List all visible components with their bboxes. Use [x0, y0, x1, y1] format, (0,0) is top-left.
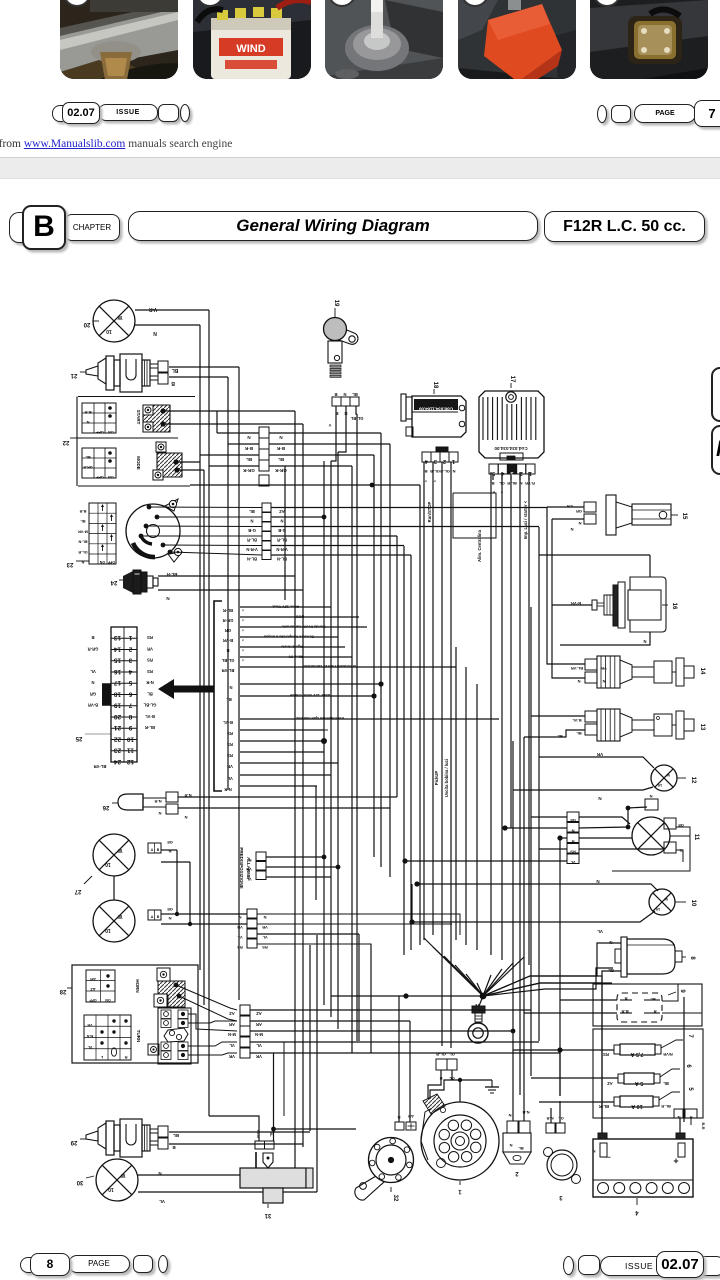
right edge boxes: [711, 367, 720, 422]
wires horn: [398, 996, 400, 1122]
svg-text:10: 10: [127, 735, 135, 742]
svg-text:N-R: N-R: [146, 680, 153, 685]
alternator stator 23: [66, 499, 182, 567]
connector A-B lamp27b: [148, 907, 173, 921]
svg-text:BL: BL: [650, 997, 656, 1002]
svg-text:11: 11: [693, 834, 699, 841]
svg-text:2: 2: [443, 458, 446, 464]
svg-text:AZ: AZ: [279, 509, 285, 514]
svg-text:3: 3: [559, 1194, 563, 1200]
wire B key: [331, 406, 336, 461]
svg-text:RS: RS: [227, 731, 233, 736]
svg-text:N: N: [263, 915, 266, 920]
wire GL-BL cluster: [240, 656, 352, 658]
svg-text:RS: RS: [147, 658, 153, 663]
wire VL lamp30: [138, 1191, 317, 1193]
wire VR socket15: [547, 506, 584, 508]
svg-text:10: 10: [690, 900, 696, 907]
wire B-R relay9: [524, 1012, 617, 1014]
wire BL-R item24: [158, 575, 295, 577]
svg-text:10: 10: [105, 927, 111, 933]
wire feeder coil16 top: [539, 554, 650, 556]
svg-text:VL: VL: [90, 669, 96, 674]
wire B cluster: [240, 646, 345, 648]
gray band: [0, 157, 720, 179]
svg-text:BL-R: BL-R: [277, 538, 287, 543]
wires GL connector: [428, 1070, 441, 1099]
svg-text:A: A: [151, 848, 154, 852]
lamp 11 bulb: [632, 817, 670, 855]
svg-text:GL-R: GL-R: [78, 550, 88, 554]
wire VL strip3: [250, 1041, 539, 1043]
svg-text:N: N: [168, 916, 171, 921]
ignition key 19: [324, 300, 358, 378]
wire ground: [460, 1080, 492, 1102]
predisposizione allarme label: [239, 847, 251, 888]
svg-text:R: R: [653, 1009, 656, 1014]
wire bus vertical lines: [177, 310, 684, 1192]
svg-text:HORN: HORN: [135, 979, 140, 992]
battery terminal connector: [674, 1109, 706, 1130]
wire START out2: [163, 423, 303, 425]
svg-text:Sensore temperatura acqua: Sensore temperatura acqua: [263, 635, 314, 639]
top pills: [52, 105, 63, 122]
wire N item24: [158, 589, 303, 591]
wire B-VR cluster: [240, 636, 338, 638]
svg-text:R: R: [124, 1055, 127, 1060]
svg-text:BL: BL: [85, 455, 91, 460]
svg-text:B-VL: B-VL: [145, 714, 155, 719]
svg-text:12: 12: [127, 758, 135, 765]
svg-text:13: 13: [699, 724, 705, 731]
svg-text:BL-R: BL-R: [166, 572, 177, 577]
wire to starter relay: [483, 983, 612, 996]
wires item29: [169, 1131, 310, 1133]
connector 31 pins: [255, 1141, 265, 1149]
wires turn connector to strip3: [188, 1014, 237, 1031]
svg-text:>: >: [242, 638, 244, 642]
svg-text:18: 18: [114, 690, 122, 697]
svg-text:32: 32: [392, 1195, 398, 1202]
starter relay 9 dashed: [617, 989, 685, 1022]
svg-text:R: R: [571, 839, 574, 844]
svg-text:15: 15: [114, 657, 122, 664]
alarm connector pins: [246, 852, 266, 882]
svg-text:N: N: [248, 858, 251, 863]
lamp 12 tail: [651, 765, 677, 791]
svg-text:BL-R: BL-R: [507, 481, 517, 486]
svg-text:N-R: N-R: [546, 1116, 553, 1121]
pin B item21: [158, 373, 168, 384]
svg-text:B: B: [172, 1145, 176, 1150]
svg-text:VL: VL: [237, 935, 243, 940]
svg-text:21: 21: [70, 372, 77, 378]
svg-text:W: W: [117, 314, 122, 320]
headlamp connector strip: [0, 0, 1, 1]
svg-text:N: N: [229, 685, 232, 690]
oil sensor 31: [240, 1152, 313, 1218]
spark plug cable 14: [571, 656, 705, 688]
turn lamp front right 27b: [93, 900, 135, 942]
svg-text:B-R: B-R: [84, 410, 91, 415]
pins item29: [158, 1126, 168, 1137]
mount plate 3: [544, 1148, 581, 1201]
svg-text:17: 17: [114, 679, 122, 686]
regulator connector 5-pin: [489, 464, 535, 495]
svg-text:BL-VR: BL-VR: [94, 764, 107, 769]
wires lamp27a: [161, 849, 177, 851]
svg-text:ON: ON: [99, 560, 105, 564]
wire VL lamp10: [412, 911, 655, 922]
svg-text:6: 6: [685, 1064, 691, 1068]
photo strip: [60, 0, 178, 79]
svg-text:24: 24: [114, 758, 122, 765]
svg-text:GL-BL: GL-BL: [221, 658, 234, 663]
ignition coil 16: [592, 577, 677, 632]
svg-text:BL: BL: [576, 731, 582, 736]
svg-text:19: 19: [333, 300, 339, 307]
wire BL-VR riserva carburante: [240, 666, 456, 668]
wire to battery positive: [679, 1118, 681, 1133]
svg-text:N: N: [596, 879, 599, 884]
svg-text:Alim. Centralina: Alim. Centralina: [477, 529, 482, 562]
svg-text:>: >: [242, 628, 244, 632]
horn 32: [355, 1138, 414, 1202]
wires 23 to strip2: [147, 505, 152, 510]
svg-text:GL-BL: GL-BL: [350, 416, 363, 421]
svg-text:VR: VR: [227, 764, 233, 769]
svg-text:N: N: [247, 435, 250, 440]
wire BL item21: [169, 366, 239, 368]
wire V-R lamp20: [135, 309, 209, 311]
junction: [403, 993, 408, 998]
svg-text:NODI: NODI: [295, 615, 305, 619]
svg-text:L: L: [100, 1055, 103, 1060]
svg-text:AR: AR: [229, 1022, 235, 1027]
wire MODE out1: [176, 461, 200, 463]
svg-text:GR-R: GR-R: [83, 465, 93, 469]
wire M-N 31: [209, 1116, 259, 1141]
wire BL-R strip2: [271, 535, 397, 537]
svg-text:B: B: [171, 380, 175, 386]
svg-text:N: N: [519, 481, 522, 486]
svg-text:BL: BL: [246, 457, 252, 462]
wire N lamp12: [513, 787, 653, 790]
svg-text:VL: VL: [262, 935, 268, 940]
svg-text:4: 4: [128, 668, 132, 675]
svg-text:10: 10: [105, 861, 111, 867]
svg-text:31: 31: [264, 1212, 271, 1218]
svg-text:BL: BL: [249, 509, 255, 514]
ground chassis: [485, 1080, 499, 1093]
fuse 7.5A: [603, 1034, 693, 1057]
svg-text:N: N: [602, 679, 605, 684]
svg-text:AR: AR: [408, 1114, 414, 1119]
svg-text:BL: BL: [173, 1133, 179, 1138]
fuse 10A: [599, 1087, 693, 1109]
svg-text:BL: BL: [352, 392, 358, 397]
svg-text:GR-R: GR-R: [275, 468, 287, 473]
turn lamp front left 27a: [93, 834, 135, 876]
svg-text:BL-VR: BL-VR: [571, 666, 583, 671]
wire BL relay9: [662, 984, 678, 1001]
svg-text:3: 3: [128, 657, 132, 664]
bulb holder 29: [86, 1119, 158, 1157]
svg-text:VR: VR: [147, 646, 153, 651]
svg-text:N: N: [578, 521, 581, 526]
svg-text:RS: RS: [227, 753, 233, 758]
wire BL-R fuse: [539, 1101, 614, 1103]
wire N-R bulb26: [178, 796, 397, 798]
svg-text:13: 13: [114, 634, 122, 641]
svg-text:VR: VR: [87, 1023, 93, 1027]
wire AZ strip2 to socket: [271, 507, 547, 509]
svg-text:21: 21: [114, 724, 122, 731]
svg-text:VR: VR: [262, 925, 268, 930]
svg-text:RS: RS: [570, 850, 576, 855]
svg-text:15: 15: [681, 513, 687, 520]
wire horn relay diagonal: [176, 985, 237, 1010]
svg-text:10: 10: [655, 907, 660, 912]
svg-text:VL: VL: [229, 1043, 235, 1048]
spark plug cable 13: [572, 709, 705, 741]
svg-text:GE: GE: [167, 907, 173, 912]
svg-text:25: 25: [75, 735, 82, 741]
svg-text:Alim. 12V Vbat.: Alim. 12V Vbat.: [272, 605, 299, 609]
svg-text:AR: AR: [256, 1022, 262, 1027]
svg-text:26: 26: [102, 804, 109, 810]
wire to item 8: [483, 968, 613, 996]
switch block 28 horn-turn: [59, 965, 198, 1064]
svg-text:TURN: TURN: [136, 1030, 141, 1043]
connector 25 grid: [75, 627, 137, 765]
wire star left: [331, 995, 483, 997]
svg-text:V: V: [328, 423, 331, 428]
wire RS 1: [240, 729, 324, 731]
connector strip 2: [246, 503, 287, 562]
svg-text:19: 19: [114, 702, 122, 709]
regulator 17: [479, 376, 544, 460]
svg-text:B-R: B-R: [79, 509, 86, 513]
svg-text:VR: VR: [237, 925, 243, 930]
svg-text:N: N: [184, 815, 187, 820]
wire N lamp10: [417, 884, 658, 891]
instrument cluster feed block: [214, 601, 222, 791]
svg-text:ON: ON: [108, 430, 114, 434]
svg-text:29: 29: [70, 1139, 77, 1145]
wire BL 31: [273, 1053, 275, 1141]
wire MODE out2: [177, 469, 204, 471]
connector GL-R GL: [436, 1052, 457, 1081]
svg-text:4: 4: [424, 458, 428, 464]
svg-text:>: >: [242, 648, 244, 652]
svg-text:GE: GE: [570, 818, 576, 823]
svg-text:1: 1: [458, 1188, 462, 1194]
svg-text:RS: RS: [147, 669, 153, 674]
svg-text:OFF: OFF: [89, 998, 97, 1002]
svg-text:N: N: [649, 794, 652, 799]
svg-text:Alim. 5V: Alim. 5V: [288, 655, 303, 659]
svg-text:Uscita bobina / luci: Uscita bobina / luci: [444, 759, 449, 797]
connector column 4 pole: [237, 909, 268, 950]
page header: [9, 212, 36, 243]
wires column 4 pole: [177, 913, 247, 915]
svg-text:B-VL: B-VL: [572, 718, 582, 723]
svg-text:B: B: [91, 635, 94, 640]
headlamp 11: [632, 794, 699, 855]
svg-text:5 A: 5 A: [635, 1080, 643, 1086]
svg-text:3: 3: [434, 458, 437, 464]
svg-text:W: W: [666, 773, 670, 778]
wires lamp11 right tabs: [612, 827, 690, 871]
wire BL-N strip2: [271, 554, 411, 556]
wire N lamp20: [135, 324, 200, 326]
svg-text:V-R: V-R: [148, 306, 157, 312]
relay housing loop: [593, 984, 702, 1026]
svg-text:N: N: [452, 469, 455, 474]
svg-text:22: 22: [62, 439, 69, 445]
svg-text:W: W: [120, 1172, 125, 1178]
wire V-R-N strip2: [271, 545, 404, 547]
CDI pickup unit 2: [503, 1110, 531, 1176]
svg-text:VL: VL: [256, 1043, 262, 1048]
svg-text:5: 5: [128, 679, 132, 686]
connector N-R GL pair: [546, 1116, 565, 1133]
svg-text:VR: VR: [246, 867, 252, 872]
horn terminals: [395, 1114, 416, 1130]
junction star node N: [480, 993, 487, 1000]
svg-text:10 A: 10 A: [631, 1103, 642, 1109]
svg-text:7: 7: [687, 1034, 693, 1038]
svg-text:VL: VL: [246, 877, 252, 882]
svg-text:>: >: [500, 490, 503, 495]
wire N lamp30: [138, 1174, 297, 1176]
wires alarm: [266, 856, 324, 858]
svg-text:PREDISPOSIZIONE: PREDISPOSIZIONE: [239, 847, 244, 888]
svg-text:ON: ON: [108, 475, 114, 479]
svg-text:OFF: OFF: [96, 475, 104, 479]
svg-text:B-R: B-R: [276, 446, 285, 451]
svg-text:N: N: [279, 435, 282, 440]
svg-text:PickUP: PickUP: [434, 771, 439, 786]
svg-text:14: 14: [114, 645, 122, 652]
svg-text:GE: GE: [167, 840, 173, 845]
svg-text:N: N: [508, 1113, 511, 1118]
svg-text:RS: RS: [227, 742, 233, 747]
connector 25 wire labels: [88, 635, 157, 769]
svg-text:22: 22: [114, 735, 122, 742]
svg-text:N: N: [158, 1171, 161, 1176]
wire from BL junction right: [274, 1128, 357, 1130]
wire corner RS: [324, 729, 328, 731]
wire N cluster: [240, 683, 381, 685]
svg-text:N: N: [643, 639, 646, 644]
svg-text:>: >: [242, 608, 244, 612]
svg-text:20: 20: [114, 713, 122, 720]
svg-text:N: N: [343, 392, 346, 397]
svg-text:BL-N: BL-N: [247, 557, 257, 562]
wire B-VR coil16: [552, 604, 592, 606]
svg-text:GL-R: GL-R: [440, 469, 450, 474]
wire y485 long: [190, 484, 420, 486]
wire GL-BL key: [356, 406, 357, 414]
svg-text:N: N: [81, 560, 84, 564]
svg-text:17: 17: [509, 376, 515, 383]
svg-text:BL: BL: [80, 519, 86, 523]
svg-text:B: B: [157, 848, 160, 852]
svg-text:OFF: OFF: [107, 560, 115, 564]
svg-text:27: 27: [74, 888, 81, 894]
svg-text:GL-B: GL-B: [430, 469, 440, 474]
svg-text:R-VR: R-VR: [525, 481, 535, 486]
wire M-N strip3: [250, 1030, 513, 1032]
svg-text:1: 1: [452, 458, 455, 464]
watermark line: [0, 138, 232, 150]
bottom pills: [20, 1257, 31, 1273]
wire N-R cluster: [240, 785, 317, 787]
wire BL sotto chiave: [240, 695, 374, 697]
svg-text:BL-R: BL-R: [247, 538, 257, 543]
svg-text:R/VR: R/VR: [663, 1052, 673, 1057]
svg-text:BL: BL: [278, 457, 284, 462]
wire AZ fuse: [531, 1077, 618, 1079]
lamp 20 position light: [93, 300, 135, 342]
svg-text:7: 7: [128, 702, 132, 709]
svg-text:START: START: [136, 410, 141, 425]
wire RS 2: [240, 740, 324, 742]
svg-text:>: >: [242, 618, 244, 622]
svg-text:12: 12: [690, 777, 696, 784]
svg-text:N: N: [598, 796, 601, 801]
svg-text:MODE: MODE: [136, 456, 141, 470]
wire N coil16: [560, 632, 650, 645]
wires unit 2: [512, 1095, 514, 1121]
wires lamp11 to tabs: [579, 807, 647, 828]
wire loop box: [453, 493, 496, 538]
svg-text:GR-R: GR-R: [243, 468, 255, 473]
ring terminal and bolt to ground: [468, 996, 488, 1043]
switch block 22 start-mode: [62, 397, 195, 487]
oil level sensor 24: [110, 570, 158, 594]
svg-text:W: W: [117, 847, 122, 853]
wire G-B strip2: [271, 526, 539, 528]
svg-text:BL: BL: [663, 1081, 669, 1086]
svg-text:A: A: [151, 915, 154, 919]
wire N to battery negative: [483, 976, 602, 1139]
fuse box housing: [593, 1029, 703, 1118]
wire GR cluster: [240, 626, 367, 628]
svg-text:BL: BL: [147, 691, 153, 696]
electric starter 8: [615, 937, 695, 977]
svg-text:G-B: G-B: [248, 528, 256, 533]
svg-text:VL: VL: [597, 929, 603, 934]
pickup coil on flywheel: [423, 1094, 446, 1114]
svg-text:9: 9: [679, 989, 685, 993]
wire B item21: [169, 376, 228, 378]
wire N starter: [483, 943, 621, 996]
svg-text:BL: BL: [518, 1146, 524, 1151]
wire N socket15: [552, 518, 584, 520]
wires lamp11: [531, 816, 567, 818]
svg-text:BL-R: BL-R: [145, 725, 155, 730]
svg-text:GR: GR: [576, 509, 582, 514]
svg-text:GR-R: GR-R: [223, 618, 234, 623]
svg-text:BL-N: BL-N: [78, 540, 87, 544]
svg-text:14: 14: [699, 668, 705, 675]
wire RS 3: [240, 751, 324, 753]
svg-text:G-B: G-B: [278, 528, 286, 533]
wire battery negative feed: [483, 983, 602, 996]
